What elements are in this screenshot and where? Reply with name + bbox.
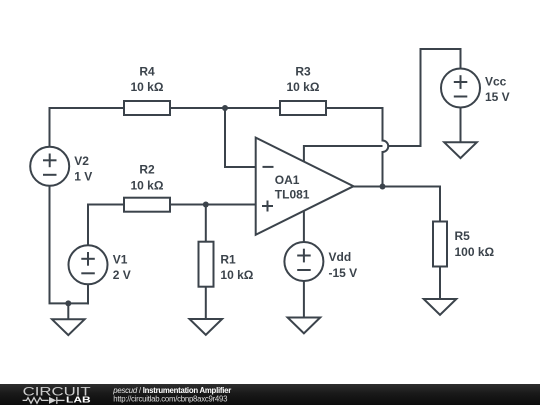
wire R1 bottom to ground — [205, 287, 207, 319]
plus input junction dot — [203, 202, 209, 208]
wire top row from V2 to R4 — [50, 107, 125, 109]
output junction dot — [380, 184, 386, 190]
op-amp minus input symbol — [263, 166, 274, 168]
CircuitLab logo resistor zigzag and diode — [23, 397, 65, 404]
ground below Vcc — [444, 142, 477, 158]
ground below R1 — [190, 319, 223, 335]
resistor R4 — [124, 101, 170, 115]
svg-text:2 V: 2 V — [113, 268, 131, 282]
ground below Vdd — [288, 318, 321, 334]
svg-text:Vcc: Vcc — [485, 75, 507, 89]
svg-text:R2: R2 — [139, 163, 155, 177]
svg-text:R4: R4 — [139, 65, 155, 79]
svg-text:R3: R3 — [295, 65, 311, 79]
ground below V1/V2 node — [52, 319, 85, 335]
op-amp plus input symbol — [262, 201, 273, 212]
wire R3 right to feedback corner — [326, 107, 383, 109]
wire op-amp V- pin to Vdd — [303, 211, 305, 242]
wire hop on feedback over Vcc wire — [383, 141, 389, 153]
voltage source V2 — [30, 147, 69, 186]
wire bottom node to ground — [67, 303, 69, 319]
svg-text:10 kΩ: 10 kΩ — [287, 80, 320, 94]
op-amp OA1 triangle — [256, 138, 354, 235]
svg-text:R1: R1 — [220, 253, 236, 267]
wire Vcc bottom to ground — [460, 108, 462, 143]
wire R2 left to V1 top — [88, 205, 124, 246]
bottom-left junction dot — [65, 300, 71, 306]
svg-text:10 kΩ: 10 kΩ — [220, 268, 253, 282]
wire feedback vertical lower — [382, 152, 384, 187]
svg-text:http://circuitlab.com/cbnp8axc: http://circuitlab.com/cbnp8axc9r493 — [113, 394, 227, 403]
svg-text:15 V: 15 V — [485, 90, 510, 104]
voltage source Vcc — [441, 69, 480, 108]
svg-text:LAB: LAB — [66, 395, 91, 404]
svg-text:Vdd: Vdd — [329, 250, 352, 264]
svg-text:10 kΩ: 10 kΩ — [131, 178, 164, 192]
wire Vdd bottom to ground — [303, 282, 305, 318]
voltage source V1 — [69, 245, 108, 284]
svg-text:V1: V1 — [113, 253, 128, 267]
wire R1 column top — [205, 205, 207, 242]
resistor R5 — [433, 222, 447, 267]
wire Vcc top loop — [304, 49, 461, 162]
svg-text:R5: R5 — [455, 229, 471, 243]
voltage source Vdd — [284, 242, 323, 281]
svg-text:V2: V2 — [74, 154, 89, 168]
wire V2 bottom to bottom node — [50, 186, 89, 304]
wire V2 top — [49, 108, 51, 147]
ground below R5 — [424, 299, 457, 315]
svg-text:OA1: OA1 — [275, 173, 300, 187]
wire node A down to minus input — [225, 108, 256, 167]
wire R5 bottom to ground — [439, 267, 441, 300]
wire output row — [354, 187, 441, 222]
resistor R1 — [199, 242, 214, 287]
wire R4 to node A — [170, 107, 280, 109]
svg-text:100 kΩ: 100 kΩ — [455, 245, 495, 259]
svg-text:-15 V: -15 V — [329, 266, 358, 280]
wire V1 bottom — [87, 285, 89, 304]
resistor R2 — [124, 198, 170, 212]
resistor R3 — [280, 101, 326, 115]
wire feedback vertical upper — [382, 108, 384, 141]
svg-text:1 V: 1 V — [74, 170, 92, 184]
footer bar — [0, 384, 540, 405]
wire plus input row — [170, 204, 256, 206]
svg-text:10 kΩ: 10 kΩ — [131, 80, 164, 94]
svg-text:TL081: TL081 — [275, 188, 310, 202]
node A junction dot — [222, 105, 228, 111]
